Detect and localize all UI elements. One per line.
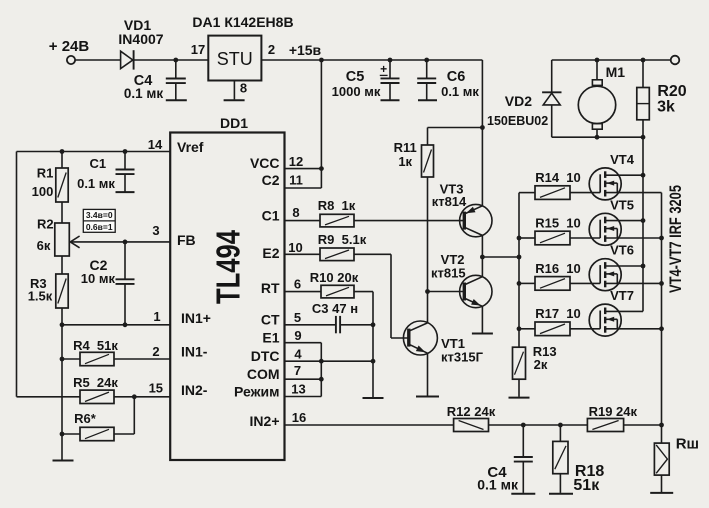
svg-text:11: 11 [289,173,303,188]
transistor Q VT3 kt814 (PNP) [460,204,492,236]
ground R10/DTC [363,397,384,399]
svg-text:кт814: кт814 [432,194,467,209]
node R11 top junction [480,125,485,130]
svg-text:DTC: DTC [251,348,280,364]
svg-text:0.6в=1: 0.6в=1 [86,222,113,232]
ground R18 [549,493,573,495]
svg-text:VT4-VT7 IRF 3205: VT4-VT7 IRF 3205 [666,185,685,293]
svg-text:M1: M1 [606,64,626,80]
wire pin 12 stub [285,168,322,170]
wire pin 11 stub [285,187,322,189]
svg-text:IN1-: IN1- [181,344,208,360]
node motor +24V terminal [671,56,680,65]
svg-text:5: 5 [294,310,301,325]
node R20 bottom / drain rail top [641,135,646,140]
wire IN2+ pin 16 row [285,424,454,426]
wire bracket pins 9-13 [320,343,322,397]
svg-text:STU: STU [217,49,253,69]
resistor R19 24k [587,419,623,432]
node rail C5 [388,58,393,63]
node C1 top [123,149,128,154]
node drain VT6 [641,264,646,269]
node rail C6 [424,58,429,63]
wire input to VD1 [75,59,120,61]
diode VD1 IN4007 [121,51,133,68]
node R5/R6 junction [132,394,137,399]
svg-text:13: 13 [291,382,305,397]
svg-text:E2: E2 [262,245,279,261]
transistor VT5 IRF3205 (MOSFET) [589,213,621,245]
svg-text:2: 2 [268,42,275,57]
svg-text:0.1 мк: 0.1 мк [77,176,115,191]
svg-text:VT6: VT6 [610,243,634,258]
svg-text:2: 2 [152,344,159,359]
capacitor C2 10uF [124,242,126,279]
svg-text:15: 15 [149,380,163,395]
pin 8 ground of DA1 [233,81,235,100]
resistor R8 1k [285,220,321,222]
node C2 top [123,240,128,245]
svg-text:C6: C6 [447,69,466,85]
svg-text:R16 10: R16 10 [535,261,581,276]
ground C6 [418,99,437,101]
svg-text:VT5: VT5 [610,197,634,212]
node shunt top [659,423,664,428]
node R18 junction [558,423,563,428]
resistor R20 3k [642,60,644,88]
wire FB pin 3 row with wiper arrow [70,241,170,243]
node bus/drive [517,255,522,260]
svg-text:8: 8 [240,81,247,96]
node pin1/R-chain [60,322,65,327]
node C3/R10 [371,322,376,327]
svg-text:2к: 2к [534,357,548,372]
resistor R15 10 (gate) [519,237,535,239]
svg-text:10 мк: 10 мк [81,271,116,286]
node C4 bottom junction [521,423,526,428]
svg-text:14: 14 [148,137,163,152]
wire Vref pin 14 row [17,151,171,153]
ground C5 [381,99,400,101]
svg-text:VD2: VD2 [505,93,532,109]
svg-text:150EBU02: 150EBU02 [487,114,548,128]
node M1 bottom [595,135,600,140]
potentiometer R2 6k [55,223,70,256]
svg-text:R19 24к: R19 24к [589,404,638,419]
svg-text:R5 24к: R5 24к [73,375,118,390]
capacitor C6 0.1uF [426,60,428,78]
svg-text:100: 100 [32,184,54,199]
node bus R16 [517,281,522,286]
svg-text:R10 20к: R10 20к [310,270,359,285]
wire R12 to R19 [489,424,588,426]
svg-text:1к: 1к [398,154,412,169]
wire left feedback vertical [16,152,18,397]
capacitor C3 47n [285,324,336,326]
node bus R15 [517,236,522,241]
motor M1 [596,60,598,80]
node source VT7 [659,326,664,331]
resistor R10 20k [285,291,322,293]
svg-text:51к: 51к [573,477,600,494]
node pin4/R10 [371,359,376,364]
svg-text:+ 24В: + 24В [49,38,90,55]
svg-text:кт315Г: кт315Г [441,350,484,365]
resistor R1 100 [61,152,63,169]
node VT2 base / VT1 collector [425,289,430,294]
svg-text:E1: E1 [262,330,279,346]
node R6 left [60,432,65,437]
transistor VT4 IRF3205 (MOSFET) [589,168,621,200]
resistor R12 24k [454,419,489,432]
wire R2-R3 [61,256,63,274]
capacitor C5 1000uF [389,60,391,78]
wire rail down to VT3 emitter [481,60,483,206]
svg-text:R9 5.1к: R9 5.1к [318,232,367,247]
regulator DA1 K142EN8V (STU) [208,36,261,81]
node M1 top [595,58,600,63]
svg-text:Rш: Rш [676,436,699,453]
wire +15V rail [261,59,482,61]
transistor Q VT1 kt315G (NPN) [391,337,409,339]
resistor R9 5.1k [285,253,321,255]
svg-text:VT7: VT7 [610,288,634,303]
node source VT6 [659,281,664,286]
wire source rail [661,193,663,444]
svg-text:IN2-: IN2- [181,382,208,398]
svg-text:9: 9 [294,328,301,343]
svg-text:4: 4 [294,346,302,361]
wire gate bus vertical [518,193,520,348]
svg-text:Vref: Vref [177,139,204,155]
svg-text:C5: C5 [346,69,365,85]
node R20 top [641,58,646,63]
wire R19 to shunt node [624,424,662,426]
transistor VT6 IRF3205 (MOSFET) [589,259,621,291]
svg-text:C1: C1 [262,208,280,224]
node pin4 bracket [319,359,324,364]
svg-text:C1: C1 [89,156,106,171]
svg-text:IN1+: IN1+ [181,310,211,326]
node collectors junction [480,255,485,260]
svg-text:IN2+: IN2+ [250,413,280,429]
resistor R17 10 (gate) [519,328,535,330]
ground R13 [509,397,530,399]
resistor R13 2k [513,347,526,379]
svg-text:7: 7 [294,363,301,378]
svg-text:C3 47 н: C3 47 н [312,301,358,316]
node pin7 bracket [319,377,324,382]
annotation box 3.4v/0.6v [83,209,115,232]
svg-text:0.1 мк: 0.1 мк [441,84,479,99]
svg-text:6к: 6к [37,238,51,253]
resistor R14 10 (gate) [519,192,535,194]
svg-text:1000 мк: 1000 мк [332,84,381,99]
transistor VT7 IRF3205 (MOSFET) [589,304,621,336]
wire VD1 to DA1 pin 17 [134,59,209,61]
svg-text:TL494: TL494 [210,229,247,304]
ground VT1 emitter [416,396,439,398]
svg-text:R20: R20 [657,83,686,100]
resistor R3 1.5k [56,274,68,308]
svg-text:1: 1 [153,309,160,324]
svg-text:R4 51к: R4 51к [73,338,118,353]
svg-text:DA1 К142ЕН8В: DA1 К142ЕН8В [192,14,293,30]
op-amp U1 TL494 (DD1) body [170,133,284,461]
ground VT2 emitter [472,333,493,335]
svg-text:R2: R2 [37,217,54,232]
capacitor C4 0.1uF (input) [175,60,177,79]
shunt resistor Rsh [661,442,663,444]
svg-text:16: 16 [292,410,306,425]
node +24V input terminal [67,56,75,64]
resistor R5 24k [80,390,114,403]
ground C1 [116,191,135,193]
svg-text:DD1: DD1 [220,115,248,131]
resistor R6* [62,433,80,435]
diode VD2 150EBU02 [551,60,553,92]
svg-text:R17 10: R17 10 [535,306,581,321]
svg-text:3k: 3k [657,99,675,116]
svg-text:IN4007: IN4007 [118,31,163,47]
wire drive to gate bus [482,256,519,258]
node R1 top [60,149,65,154]
svg-text:3.4в=0: 3.4в=0 [86,210,113,220]
wire R10 down to ground [372,292,374,398]
node pin12 [319,166,324,171]
svg-text:0.1 мк: 0.1 мк [124,86,164,101]
ground R-chain [53,460,74,462]
svg-text:+15в: +15в [289,42,322,58]
wire motor top rail [552,59,671,61]
resistor R4 51k [62,358,80,360]
resistor R16 10 (gate) [519,282,535,284]
svg-text:+: + [380,62,387,76]
svg-text:COM: COM [247,366,280,382]
wire IN1+ pin 1 row [62,324,170,326]
wire R3 bottom to pin1 row and down [61,308,63,460]
ground C4 [166,99,187,101]
svg-text:R14 10: R14 10 [535,170,581,185]
node source VT5 [659,236,664,241]
svg-text:R1: R1 [37,166,54,181]
node rail to pins 12/11 [319,58,324,63]
svg-text:1.5к: 1.5к [28,288,53,303]
node drain VT4 [641,173,646,178]
svg-text:R12 24к: R12 24к [447,404,496,419]
svg-text:FB: FB [177,232,196,248]
svg-text:3: 3 [152,223,159,238]
wire motor bottom rail [552,136,643,138]
wire drain rail [642,137,644,311]
svg-text:VCC: VCC [250,155,280,171]
svg-text:кт815: кт815 [431,266,466,281]
node R4 left [60,357,65,362]
svg-text:CT: CT [261,311,280,327]
svg-text:17: 17 [191,42,205,57]
resistor R18 51k [559,425,561,441]
svg-text:RT: RT [261,280,280,296]
node C4 junction [173,58,178,63]
resistor R11 1k [428,127,483,129]
wire pin 13 stub [285,396,322,398]
svg-text:8: 8 [292,205,299,220]
svg-text:R6*: R6* [74,411,97,426]
wire pin 9 stub [285,342,322,344]
ground C4 bottom [511,493,535,495]
node drain VT5 [641,218,646,223]
svg-text:6: 6 [294,277,301,292]
svg-text:R15 10: R15 10 [535,215,581,230]
wire pins 11/12 to rail [320,60,322,188]
capacitor C4 0.1uF (bottom) [522,425,524,457]
node pin1/C2 bottom [123,322,128,327]
svg-text:C2: C2 [262,172,280,188]
node bus R17 [517,326,522,331]
wire pin 7 stub [285,378,322,380]
wire R1-R2 [61,202,63,223]
ground Rsh [650,492,673,494]
transistor Q VT2 kt815 (NPN) [428,291,465,293]
svg-text:10: 10 [288,240,302,255]
svg-text:Режим: Режим [234,384,279,400]
capacitor C1 0.1uF [124,152,126,170]
svg-text:R11: R11 [394,140,417,155]
svg-text:12: 12 [289,154,303,169]
svg-text:VT4: VT4 [610,152,635,167]
wire pin 4 row [285,360,374,362]
svg-text:R8 1к: R8 1к [318,198,356,213]
svg-text:0.1 мк: 0.1 мк [477,476,519,492]
wire VT3 base to VT2 base [427,221,429,292]
